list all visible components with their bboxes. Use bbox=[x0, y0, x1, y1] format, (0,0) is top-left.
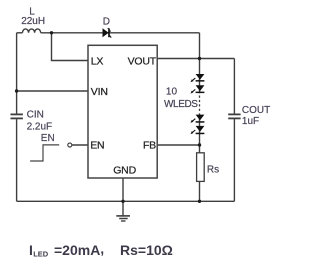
wire Rs to bottom rail bbox=[199, 181, 201, 201]
LED D3 bbox=[191, 115, 205, 123]
wire LED string lower to FB node bbox=[199, 114, 201, 146]
LED D2 bbox=[191, 85, 205, 93]
svg-text:Rs=10Ω: Rs=10Ω bbox=[120, 242, 173, 258]
wire bottom rail bbox=[17, 200, 235, 202]
EN step source bbox=[30, 143, 72, 161]
node VOUT/LED top bbox=[198, 57, 201, 60]
svg-text:2.2uF: 2.2uF bbox=[27, 122, 53, 133]
wire VIN pin bbox=[17, 90, 88, 92]
svg-text:WLEDS: WLEDS bbox=[164, 99, 198, 110]
wire right rail lower bbox=[233, 118, 235, 201]
svg-text:VIN: VIN bbox=[91, 86, 108, 98]
wire left rail upper segment bbox=[16, 33, 18, 114]
node Rs bottom bbox=[198, 200, 201, 203]
inductor L1 coil bbox=[23, 29, 41, 33]
LED D4 bbox=[191, 126, 205, 134]
node GND bbox=[121, 200, 124, 203]
wire LX branch bbox=[52, 33, 89, 61]
svg-text:LX: LX bbox=[91, 55, 104, 67]
svg-text:D: D bbox=[103, 17, 110, 28]
wire VOUT pin to right rail bbox=[157, 58, 234, 60]
wire LED string upper bbox=[199, 59, 201, 94]
svg-text:1uF: 1uF bbox=[242, 116, 259, 127]
svg-text:Rs: Rs bbox=[207, 164, 219, 175]
svg-text:,: , bbox=[100, 241, 104, 257]
wire FB pin bbox=[157, 144, 199, 146]
wire left rail lower segment bbox=[16, 119, 18, 201]
svg-text:10: 10 bbox=[166, 87, 178, 98]
svg-text:GND: GND bbox=[113, 164, 136, 176]
svg-text:CIN: CIN bbox=[27, 110, 44, 121]
resistor Rs bbox=[197, 153, 205, 182]
node LX/top bbox=[50, 31, 53, 34]
wire right rail upper (to COUT) bbox=[233, 59, 235, 114]
wire top-right drop to VOUT node bbox=[199, 33, 201, 59]
node FB bbox=[198, 143, 201, 146]
wire FB node to Rs bbox=[199, 145, 201, 153]
wire GND pin drop bbox=[122, 178, 124, 201]
svg-text:COUT: COUT bbox=[242, 105, 270, 116]
svg-text:FB: FB bbox=[143, 140, 156, 152]
svg-text:EN: EN bbox=[90, 140, 104, 152]
diode D bbox=[103, 28, 112, 37]
LED D1 bbox=[191, 74, 205, 82]
formula text bbox=[29, 241, 173, 259]
wire coil to top-right corner bbox=[41, 32, 200, 34]
wire top rail VIN to diode to VOUT corner bbox=[17, 32, 23, 34]
svg-text:LED: LED bbox=[33, 250, 49, 259]
svg-text:22uH: 22uH bbox=[21, 16, 45, 27]
capacitor CIN plates bbox=[11, 113, 23, 115]
ground (main) bbox=[116, 201, 130, 221]
IC U1 body bbox=[88, 45, 157, 178]
svg-text:EN: EN bbox=[41, 133, 55, 144]
wire EN pin bbox=[72, 144, 88, 146]
node VIN bbox=[15, 89, 18, 92]
svg-text:=20mA: =20mA bbox=[54, 242, 100, 258]
capacitor COUT plates bbox=[228, 113, 240, 115]
wire LED string dotted continuation bbox=[199, 96, 201, 114]
svg-text:VOUT: VOUT bbox=[128, 55, 157, 67]
